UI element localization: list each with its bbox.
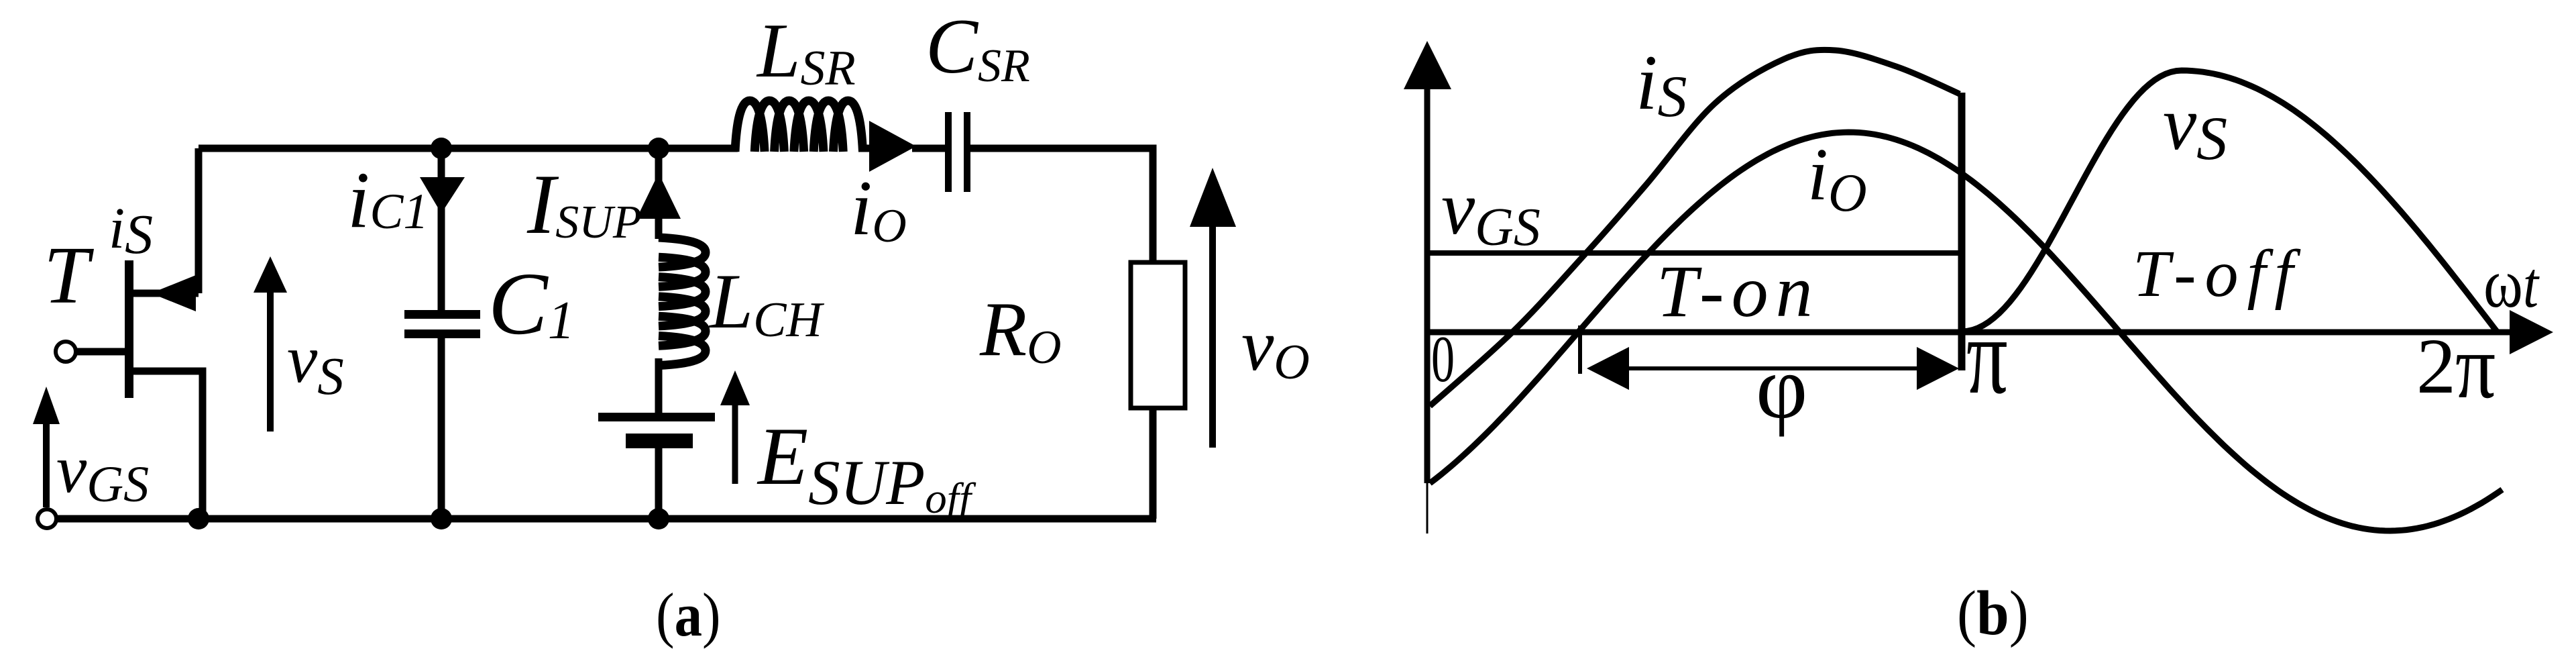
wire drain riser [195, 148, 203, 293]
diode D (series, current iO direction) [869, 121, 916, 172]
arrow vS [254, 256, 287, 432]
node bottom-LCH [648, 508, 669, 529]
node bottom-C1 [431, 508, 452, 529]
svg-text:iS: iS [109, 195, 153, 266]
curve iS [1430, 50, 1960, 406]
svg-text:ωt: ωt [2483, 245, 2540, 322]
wire top rail right of coil [858, 145, 872, 152]
svg-text:π: π [1966, 296, 2008, 417]
svg-text:φ: φ [1756, 338, 1807, 437]
svg-text:(b): (b) [1957, 578, 2029, 648]
wire C1 branch lower [438, 338, 445, 515]
wire LCH branch upper [655, 152, 663, 239]
svg-text:π: π [2455, 315, 2496, 417]
wire drain lead [133, 290, 199, 297]
curve vS [1962, 70, 2497, 332]
node top-LCH [648, 138, 669, 159]
arrow ESUP [720, 370, 750, 484]
wire diode to CSR [912, 145, 945, 152]
axis vertical thin extension [1426, 483, 1429, 534]
capacitor C1 plates [404, 310, 480, 319]
svg-text:2: 2 [2416, 322, 2456, 410]
svg-text:T-on: T-on [1657, 250, 1820, 332]
wire gate lead [76, 348, 125, 356]
wire top rail [199, 145, 738, 152]
transistor T channel bar [125, 260, 133, 398]
inductor LSR coil [735, 101, 863, 152]
resistor RO [1131, 262, 1185, 408]
battery ESUP long plate [598, 413, 715, 421]
vGS waveform line [1427, 250, 1962, 256]
wire LCH to battery [655, 358, 663, 415]
battery ESUP short plate [626, 434, 693, 448]
transistor T gate terminal circle [56, 342, 76, 362]
node bottom-source [188, 508, 209, 529]
arrow vO [1190, 168, 1236, 448]
svg-text:T-off: T-off [2133, 236, 2302, 311]
curve iO [1430, 132, 2502, 531]
node top-C1 [431, 138, 452, 159]
terminal bottom-left circle [38, 509, 56, 528]
arrow ISUP on LCH branch [636, 173, 681, 219]
pi drop line [1958, 93, 1966, 370]
axis vertical [1424, 84, 1431, 483]
arrow iC1 on C1 branch [420, 177, 465, 213]
wire source lead [133, 371, 203, 519]
inductor LCH coil [659, 238, 706, 366]
axis vertical arrowhead [1404, 41, 1451, 89]
axis horizontal [1424, 329, 2516, 336]
capacitor CSR plates [945, 112, 952, 192]
svg-text:(a): (a) [656, 580, 721, 649]
transistor T drain arrow [151, 275, 196, 311]
wire C1 branch upper [438, 152, 445, 310]
phi left tick [1578, 325, 1582, 374]
svg-text:T: T [44, 230, 95, 321]
axis horizontal arrowhead [2510, 310, 2553, 354]
wire battery to bottom rail [655, 446, 663, 515]
svg-text:0: 0 [1431, 322, 1455, 396]
wire CSR to corner and down to resistor [970, 148, 1153, 262]
phi arrow [1587, 347, 1959, 390]
wire resistor bottom to bottom rail [1150, 408, 1157, 519]
wire bottom rail [58, 515, 1156, 523]
arrow vGS [33, 387, 60, 507]
